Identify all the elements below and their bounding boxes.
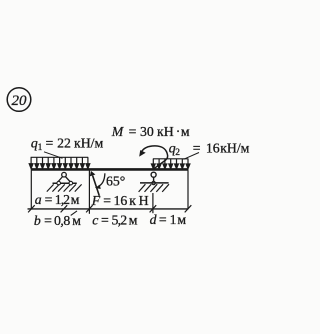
pin support A (triangle with hinge)	[53, 172, 77, 185]
tick at left end	[28, 205, 35, 212]
leader line from q2 label	[184, 153, 200, 160]
tick at pin support	[61, 205, 68, 212]
tick at roller support	[150, 205, 157, 212]
svg-text:a=1,2м: a=1,2м	[35, 192, 80, 207]
extension line under roller	[152, 193, 154, 213]
right extension line	[187, 171, 189, 209]
force F arrow	[90, 171, 100, 196]
dimension line	[28, 208, 189, 210]
label q2 = 16 kN/m	[169, 140, 250, 158]
roller support B (rod with hinges)	[140, 172, 169, 185]
distributed load q1	[29, 157, 90, 168]
extension line at force point	[88, 171, 90, 214]
distributed load q2	[151, 159, 190, 169]
svg-text:q2=16кН/м: q2=16кН/м	[169, 140, 250, 158]
small tick below line (b segment)	[71, 211, 77, 216]
svg-text:c=5,2м: c=5,2м	[92, 213, 138, 228]
svg-text:d=1м: d=1м	[150, 212, 187, 227]
beam	[31, 168, 189, 171]
label q1 = 22 kN/m	[31, 135, 104, 153]
svg-text:20: 20	[12, 93, 28, 109]
tick at force point	[86, 205, 93, 212]
label M = 30 kN*m	[111, 124, 190, 139]
leader line from q1 label	[44, 152, 63, 159]
svg-text:b=0,8м: b=0,8м	[34, 213, 81, 228]
variant number circle 20	[7, 88, 31, 112]
svg-text:M=30кН·м: M=30кН·м	[111, 124, 190, 139]
moment arc M	[139, 146, 167, 169]
svg-text:F=16кН: F=16кН	[91, 193, 151, 208]
svg-text:65°: 65°	[106, 173, 125, 188]
left extension line	[30, 171, 32, 209]
hatching under roller support	[139, 184, 169, 192]
tick at right end	[185, 205, 192, 212]
svg-text:q1=22кН/м: q1=22кН/м	[31, 135, 104, 153]
angle arc 65	[95, 173, 105, 189]
hatching under pin support	[47, 184, 82, 191]
